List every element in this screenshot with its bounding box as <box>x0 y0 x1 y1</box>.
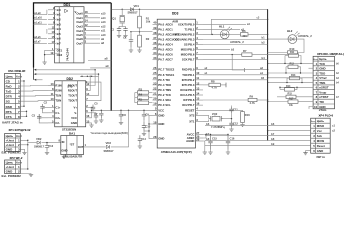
svg-text:23: 23 <box>153 81 157 85</box>
svg-text:GND: GND <box>158 113 164 117</box>
svg-text:VD2: VD2 <box>36 137 42 141</box>
svg-text:IN: IN <box>62 140 65 144</box>
svg-text:13: 13 <box>52 30 55 34</box>
svg-text:PD.0: PD.0 <box>188 68 195 72</box>
svg-text:a9: a9 <box>101 37 104 41</box>
wires PB0-PB4 <box>203 23 268 45</box>
svg-text:PB.5: PB.5 <box>188 48 195 52</box>
wires XS1 to DD2 <box>20 80 48 117</box>
svg-text:16: 16 <box>196 102 200 106</box>
svg-text:PD.1: PD.1 <box>188 73 195 77</box>
svg-text:ISP in: ISP in <box>317 155 325 159</box>
svg-text:b2: b2 <box>262 41 266 45</box>
svg-text:24: 24 <box>153 76 157 80</box>
crystal ZQ1 with load caps <box>111 9 140 38</box>
svg-text:OC1B: OC1B <box>180 88 188 92</box>
svg-text:OC1A: OC1A <box>180 93 188 97</box>
svg-text:R3: R3 <box>139 88 143 92</box>
svg-text:PB.1: PB.1 <box>188 27 195 31</box>
svg-text:a9: a9 <box>106 64 109 68</box>
svg-text:INT2/AIN0: INT2/AIN0 <box>175 32 188 36</box>
svg-text:XP3 IDC-10M(FULL): XP3 IDC-10M(FULL) <box>317 52 344 56</box>
svg-text:10: 10 <box>196 71 200 75</box>
svg-text:ADC1: ADC1 <box>165 27 173 31</box>
svg-text:PA.1: PA.1 <box>158 27 164 31</box>
svg-text:АЛ307Б_2: АЛ307Б_2 <box>230 40 244 44</box>
svg-text:MOSI: MOSI <box>317 139 325 143</box>
svg-text:40: 40 <box>153 21 157 25</box>
svg-text:36: 36 <box>153 41 157 45</box>
svg-text:XP2 WF-2: XP2 WF-2 <box>10 156 23 160</box>
svg-text:VCC: VCC <box>71 116 77 120</box>
svg-text:a12: a12 <box>101 24 106 28</box>
svg-text:SS: SS <box>184 43 188 47</box>
svg-text:Sck: Sck <box>317 134 323 138</box>
svg-text:18: 18 <box>85 10 88 14</box>
svg-text:DA1: DA1 <box>69 131 75 135</box>
svg-text:38: 38 <box>153 31 157 35</box>
svg-text:Ext. POWER1: Ext. POWER1 <box>2 150 22 154</box>
svg-text:TDO: TDO <box>319 71 326 75</box>
capacitor C5 <box>88 102 98 112</box>
svg-text:Конт: Конт <box>16 134 23 138</box>
svg-text:PA.0: PA.0 <box>158 22 164 26</box>
svg-text:28: 28 <box>196 137 200 141</box>
svg-text:35: 35 <box>153 46 157 50</box>
svg-text:nSRST: nSRST <box>319 86 329 90</box>
svg-text:TMS: TMS <box>319 81 325 85</box>
svg-text:18: 18 <box>153 120 157 124</box>
svg-text:MISO: MISO <box>317 124 325 128</box>
svg-text:TCK: TCK <box>165 93 171 97</box>
svg-text:a10: a10 <box>101 33 106 37</box>
svg-text:R8: R8 <box>211 79 215 83</box>
svg-text:PD.3: PD.3 <box>188 83 195 87</box>
svg-text:c1: c1 <box>332 124 336 128</box>
svg-text:ADC5: ADC5 <box>165 48 173 52</box>
svg-text:XCK/T0: XCK/T0 <box>178 22 188 26</box>
svg-text:VD3: VD3 <box>106 141 112 145</box>
svg-text:GND: GND <box>6 170 14 174</box>
svg-text:c2: c2 <box>332 129 336 133</box>
wire DD3 GND pins <box>144 115 153 138</box>
svg-text:XT2: XT2 <box>189 113 195 117</box>
svg-text:PA.3: PA.3 <box>158 37 164 41</box>
IC regulator DA1 L78L05 <box>59 131 87 158</box>
resistor R9 on OC2 <box>203 94 268 105</box>
svg-text:10: 10 <box>50 97 54 101</box>
svg-text:SG: SG <box>6 100 11 104</box>
capacitor C14 <box>138 135 147 148</box>
svg-text:R9: R9 <box>250 94 254 98</box>
LED HL1 with resistor R6 <box>203 19 268 44</box>
svg-text:UART JTAG in: UART JTAG in <box>2 120 23 124</box>
svg-text:PC.1: PC.1 <box>158 98 165 102</box>
svg-text:RTS: RTS <box>6 110 12 114</box>
svg-text:T1: T1 <box>184 27 188 31</box>
svg-text:OC2: OC2 <box>182 103 188 107</box>
svg-text:b8: b8 <box>271 137 275 141</box>
svg-text:R2OUT: R2OUT <box>68 89 77 93</box>
svg-text:MOSI: MOSI <box>181 48 188 52</box>
svg-text:a2,a6: a2,a6 <box>34 36 41 39</box>
svg-text:R5: R5 <box>139 98 143 102</box>
svg-text:C8: C8 <box>122 113 126 117</box>
svg-text:R4: R4 <box>139 93 143 97</box>
capacitor C6 <box>88 113 98 123</box>
svg-text:15: 15 <box>196 96 200 100</box>
svg-text:a2,a7: a2,a7 <box>34 41 41 44</box>
svg-text:PD.7: PD.7 <box>188 103 195 107</box>
svg-text:RESET: RESET <box>185 108 195 112</box>
capacitor C13 <box>45 142 54 155</box>
svg-text:+Uext: +Uext <box>6 165 14 169</box>
svg-text:Vsup: Vsup <box>319 90 326 94</box>
svg-text:b6: b6 <box>271 122 275 126</box>
wire DD1 OE pins to ground <box>42 50 47 64</box>
svg-text:PC.0: PC.0 <box>158 103 165 107</box>
svg-text:XT1: XT1 <box>189 120 195 124</box>
svg-text:In6: In6 <box>57 37 61 41</box>
svg-text:C10: C10 <box>145 125 150 129</box>
svg-text:a2: a2 <box>260 66 263 70</box>
svg-text:In5: In5 <box>57 32 61 36</box>
wire DD2 VCC pin to +5V net <box>88 110 91 118</box>
connector XP3 JTAG <box>313 52 344 112</box>
svg-text:11: 11 <box>196 76 199 80</box>
svg-text:TDI: TDI <box>319 100 324 104</box>
wires and pullups XP3 <box>267 51 340 109</box>
svg-text:26: 26 <box>153 66 157 70</box>
svg-text:Цепь: Цепь <box>6 74 14 78</box>
svg-text:C12: C12 <box>233 122 238 126</box>
svg-text:AGND: AGND <box>186 139 194 143</box>
svg-text:PC.2: PC.2 <box>158 93 165 97</box>
wire +5V net horizontal <box>91 110 157 111</box>
svg-text:PD.4: PD.4 <box>188 88 195 92</box>
resistor R1 reset pullup <box>137 9 152 52</box>
svg-text:GND: GND <box>317 149 323 153</box>
wires RXD TXD INT0 <box>203 66 268 80</box>
svg-text:a1,a10: a1,a10 <box>34 17 42 20</box>
svg-text:PA.5: PA.5 <box>158 48 164 52</box>
svg-text:39: 39 <box>153 26 157 30</box>
svg-text:TxD: TxD <box>6 90 13 94</box>
wire DA1 OUT to VD3 <box>84 146 106 148</box>
svg-text:XP4 PLD-6: XP4 PLD-6 <box>319 114 334 118</box>
svg-text:In1: In1 <box>57 13 61 17</box>
svg-text:10: 10 <box>314 105 318 109</box>
svg-text:ATMEGA16-16PI(TQFP): ATMEGA16-16PI(TQFP) <box>161 150 192 154</box>
svg-text:a13: a13 <box>101 20 106 24</box>
svg-text:12: 12 <box>196 81 200 85</box>
svg-text:17: 17 <box>52 40 55 44</box>
svg-text:4.7k: 4.7k <box>212 86 218 90</box>
svg-text:GND: GND <box>158 122 164 126</box>
svg-text:PD.6: PD.6 <box>188 98 195 102</box>
svg-text:R14: R14 <box>286 85 291 88</box>
svg-text:b7: b7 <box>271 132 275 136</box>
svg-text:DSR: DSR <box>6 105 13 109</box>
svg-text:In7: In7 <box>57 42 61 46</box>
svg-text:C1+: C1+ <box>55 106 60 110</box>
svg-text:13: 13 <box>50 82 54 86</box>
svg-text:DD1: DD1 <box>64 3 71 7</box>
svg-text:TCK: TCK <box>319 62 326 66</box>
svg-text:13: 13 <box>196 86 200 90</box>
svg-text:PA.2: PA.2 <box>158 32 164 36</box>
capacitor C7 decoupling <box>94 110 103 122</box>
svg-text:TOSC1: TOSC1 <box>165 73 174 77</box>
svg-text:14: 14 <box>196 91 200 95</box>
svg-text:PC.5: PC.5 <box>158 78 165 82</box>
svg-text:Out7: Out7 <box>76 41 83 45</box>
IC microcontroller DD3 ATMEGA16 <box>153 12 204 154</box>
svg-text:b3: b3 <box>231 48 235 52</box>
wires DD2 outputs <box>34 57 112 101</box>
svg-text:R7: R7 <box>243 49 247 53</box>
wire VCC right rail vertical <box>267 9 269 140</box>
svg-text:PA.6: PA.6 <box>158 53 164 57</box>
svg-text:b1: b1 <box>262 36 266 40</box>
svg-text:Ext. POWER2: Ext. POWER2 <box>2 174 22 178</box>
svg-text:b5: b5 <box>261 76 265 80</box>
svg-text:DRB-9F: DRB-9F <box>15 69 26 73</box>
svg-text:TDO: TDO <box>165 83 171 87</box>
svg-text:Цепь: Цепь <box>6 160 14 164</box>
wire VCC thick rail left/top <box>34 3 112 68</box>
connector XP1 power <box>2 128 31 154</box>
svg-text:C5: C5 <box>94 102 98 106</box>
svg-text:PB.3: PB.3 <box>188 37 195 41</box>
svg-text:XS1: XS1 <box>8 69 14 73</box>
svg-text:b8: b8 <box>206 137 210 141</box>
svg-text:C11: C11 <box>233 108 238 112</box>
svg-text:16: 16 <box>85 14 88 18</box>
connector XS1 DRB-9F <box>2 69 26 125</box>
svg-text:a15: a15 <box>101 12 106 16</box>
svg-text:C2+: C2+ <box>55 116 60 120</box>
svg-text:b4: b4 <box>262 56 266 60</box>
svg-text:C16: C16 <box>230 137 235 141</box>
svg-text:SM5817: SM5817 <box>128 11 139 15</box>
svg-text:C7: C7 <box>94 112 98 116</box>
svg-text:*ST: *ST <box>70 143 75 147</box>
svg-text:ADC6: ADC6 <box>165 53 173 57</box>
svg-text:Reset: Reset <box>317 144 325 148</box>
svg-text:R2: R2 <box>146 37 150 41</box>
svg-text:VTref: VTref <box>319 76 326 80</box>
svg-text:PC.6: PC.6 <box>158 73 165 77</box>
wires PB5 PB7 <box>203 48 268 60</box>
svg-text:GND: GND <box>71 121 77 125</box>
capacitor C9 decoupling <box>142 110 149 120</box>
svg-text:V-: V- <box>74 111 77 115</box>
svg-text:b6: b6 <box>206 122 210 126</box>
svg-text:C14: C14 <box>141 138 146 141</box>
wires XP4 ISP <box>205 122 336 155</box>
svg-text:C15: C15 <box>212 137 217 141</box>
svg-text:b9: b9 <box>271 142 275 146</box>
svg-text:C1: C1 <box>123 36 127 40</box>
svg-text:C3: C3 <box>32 114 36 118</box>
svg-text:INT1: INT1 <box>182 83 188 87</box>
svg-text:DD3: DD3 <box>172 12 179 16</box>
svg-text:PA.7: PA.7 <box>158 58 164 62</box>
svg-text:Конт: Конт <box>16 74 23 78</box>
svg-text:GND: GND <box>319 67 325 71</box>
svg-text:PC.7: PC.7 <box>158 68 165 72</box>
svg-text:C2-: C2- <box>55 121 59 125</box>
svg-text:ADC0: ADC0 <box>165 22 173 26</box>
svg-text:Цепь: Цепь <box>319 57 327 61</box>
net label top right <box>257 16 260 19</box>
diode VD3 SM5817 <box>104 141 115 153</box>
svg-text:INT0: INT0 <box>182 78 188 82</box>
svg-text:ADC7: ADC7 <box>165 58 173 62</box>
IC buffer DD1 74AC244 <box>47 3 106 63</box>
LED HL2 with resistor R10 <box>267 29 312 54</box>
svg-text:R2IN: R2IN <box>55 89 61 93</box>
svg-text:GND: GND <box>158 137 164 141</box>
svg-text:25: 25 <box>153 71 157 75</box>
svg-text:PC.4: PC.4 <box>158 83 165 87</box>
svg-text:a8: a8 <box>105 57 108 61</box>
svg-text:PB.0: PB.0 <box>188 22 195 26</box>
wires power input <box>20 140 36 177</box>
svg-text:34: 34 <box>153 51 157 55</box>
svg-text:19: 19 <box>153 102 157 106</box>
svg-text:C9: C9 <box>145 113 149 117</box>
svg-text:74AC244: 74AC244 <box>66 48 70 61</box>
resistor R8 on INT1 <box>203 79 226 89</box>
wire VCC thick rail vertical center <box>110 3 112 110</box>
wire VD3 to +5V net <box>111 110 129 147</box>
svg-text:+Uext: +Uext <box>6 143 14 147</box>
svg-text:XP1 К375ДУК-02: XP1 К375ДУК-02 <box>9 128 31 132</box>
svg-text:R1OUT: R1OUT <box>68 84 77 88</box>
resistors R3-R5 JTAG pullups <box>135 88 153 105</box>
svg-text:+Uext: +Uext <box>6 139 14 143</box>
svg-text:PB.4: PB.4 <box>188 43 195 47</box>
svg-text:T2IN: T2IN <box>55 99 61 103</box>
connector XP2 power <box>2 156 23 178</box>
svg-text:TXD: TXD <box>182 73 187 77</box>
svg-text:C13: C13 <box>48 144 53 148</box>
svg-text:R11: R11 <box>290 51 295 54</box>
svg-text:330: 330 <box>243 34 248 38</box>
wire VCC top horizontal to right rail <box>111 9 268 10</box>
svg-text:T2OUT: T2OUT <box>68 99 77 103</box>
svg-text:28: 28 <box>153 135 157 139</box>
svg-text:ZQ2: ZQ2 <box>212 112 218 116</box>
svg-text:In2: In2 <box>57 18 61 22</box>
svg-text:PB.2: PB.2 <box>188 32 195 36</box>
wire DD1 input net stubs <box>34 10 47 44</box>
svg-text:SCK: SCK <box>182 58 188 62</box>
diode VD2 SM5817 <box>34 137 61 149</box>
svg-text:SM5817: SM5817 <box>104 149 115 153</box>
svg-text:22: 22 <box>153 86 157 90</box>
svg-text:In0: In0 <box>57 8 61 12</box>
connector XP4 ISP <box>311 114 334 159</box>
svg-text:10k: 10k <box>146 20 151 24</box>
svg-text:T1OUT: T1OUT <box>68 94 77 98</box>
svg-text:MISO: MISO <box>181 53 188 57</box>
svg-text:Цепь: Цепь <box>6 134 14 138</box>
svg-text:a8: a8 <box>101 41 104 45</box>
svg-text:DD2: DD2 <box>67 77 74 81</box>
diode VD1 SM5817 <box>128 4 140 14</box>
svg-text:R16: R16 <box>245 113 250 117</box>
svg-text:a11: a11 <box>101 29 106 33</box>
svg-text:a1,a9: a1,a9 <box>34 12 41 15</box>
svg-text:14: 14 <box>85 19 88 23</box>
capacitor C3 charge pump <box>32 114 48 123</box>
svg-text:HL2: HL2 <box>287 29 293 33</box>
svg-text:HL1: HL1 <box>219 25 225 29</box>
svg-text:OUT: OUT <box>78 145 84 149</box>
note footnote text <box>91 132 128 135</box>
svg-text:DTR: DTR <box>6 95 13 99</box>
svg-text:ICP: ICP <box>183 98 188 102</box>
svg-text:SDA: SDA <box>165 98 171 102</box>
svg-text:a1: a1 <box>260 71 263 75</box>
svg-text:GND: GND <box>61 149 67 153</box>
svg-text:TOSC2: TOSC2 <box>165 68 174 72</box>
svg-text:12: 12 <box>85 23 88 27</box>
svg-text:VD1: VD1 <box>134 4 140 8</box>
capacitor C1 <box>123 31 139 52</box>
svg-text:In4: In4 <box>57 27 61 31</box>
svg-text:20: 20 <box>153 96 157 100</box>
svg-text:a14: a14 <box>101 16 106 20</box>
wire DD2 GND pin to ground <box>88 123 93 127</box>
svg-text:ADC4: ADC4 <box>165 43 173 47</box>
svg-text:nTRST: nTRST <box>319 95 329 99</box>
svg-text:C2: C2 <box>44 101 48 105</box>
svg-text:ZQ1: ZQ1 <box>111 17 117 21</box>
svg-text:19: 19 <box>50 51 53 55</box>
capacitor C10 decoupling <box>142 120 151 136</box>
svg-text:a1,a11: a1,a11 <box>34 22 42 25</box>
svg-text:PA.4: PA.4 <box>158 43 164 47</box>
svg-text:RxD: RxD <box>6 85 13 89</box>
svg-text:15: 15 <box>52 35 55 39</box>
svg-text:4.7k: 4.7k <box>250 101 256 105</box>
svg-text:АЛ307Б_2: АЛ307Б_2 <box>298 34 312 38</box>
svg-text:PB.6: PB.6 <box>188 53 195 57</box>
svg-text:a3: a3 <box>241 27 244 31</box>
svg-text:In3: In3 <box>57 22 61 26</box>
crystal ZQ2 with caps C11 C12 <box>203 106 250 132</box>
svg-text:SCL: SCL <box>165 103 171 107</box>
svg-text:C1-: C1- <box>55 111 59 115</box>
svg-text:R17: R17 <box>289 97 294 100</box>
svg-text:RXD: RXD <box>182 68 188 72</box>
svg-text:R15: R15 <box>288 93 293 96</box>
wire MISO with resistor R7 <box>203 49 287 72</box>
svg-text:V+: V+ <box>74 106 78 110</box>
svg-text:21: 21 <box>153 91 157 95</box>
svg-text:37: 37 <box>153 36 157 40</box>
IC transceiver DD2 ST232 <box>48 77 90 132</box>
svg-text:11: 11 <box>51 92 54 96</box>
svg-text:Vcc: Vcc <box>317 129 323 133</box>
svg-text:PD.2: PD.2 <box>188 78 195 82</box>
svg-text:PD.5: PD.5 <box>188 93 195 97</box>
capacitors C15 C16 AVCC filter <box>203 134 235 154</box>
